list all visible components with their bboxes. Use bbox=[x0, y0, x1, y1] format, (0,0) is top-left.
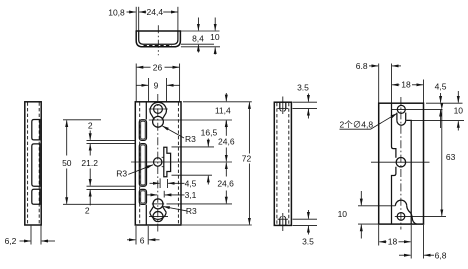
dim 3.5 top extension lines bbox=[293, 101, 318, 103]
extension line slot1 top bbox=[63, 119, 101, 121]
dim 24,6 upper line bbox=[225, 121, 227, 136]
left view hidden lines bbox=[27, 102, 29, 224]
bottom big circle crosshair bbox=[149, 216, 168, 218]
left view slot 3 bbox=[32, 189, 40, 204]
dim 3,1 tick bbox=[163, 191, 165, 198]
svg-text:10: 10 bbox=[210, 32, 220, 42]
label leader bbox=[371, 113, 398, 129]
top slot hole bbox=[397, 105, 405, 113]
svg-text:63: 63 bbox=[446, 152, 456, 162]
right extension line bottom edge bbox=[182, 224, 252, 226]
front slot 3 bbox=[139, 189, 146, 204]
dim 9 extension lines bbox=[148, 78, 150, 102]
top edge right extension line bbox=[426, 102, 463, 104]
svg-text:3.5: 3.5 bbox=[297, 83, 309, 93]
dim 24,6 lower line bbox=[225, 163, 227, 177]
dim 4,5 arrows bbox=[440, 93, 442, 103]
leader R3 middle bbox=[128, 165, 153, 175]
inner-left bend line with middle jog bbox=[392, 103, 396, 224]
top keyhole lower circle R3 bbox=[153, 116, 164, 127]
svg-text:3,1: 3,1 bbox=[185, 190, 197, 200]
svg-text:6: 6 bbox=[140, 235, 145, 245]
svg-text:6,8: 6,8 bbox=[435, 250, 447, 260]
dim 3.5 top arrows bbox=[307, 94, 309, 102]
dim 8,4 arrows bbox=[197, 18, 199, 31]
dim 9 arrows bbox=[137, 84, 149, 86]
dim 6,2 extension lines bbox=[30, 226, 32, 245]
bottom notch sides bbox=[279, 219, 281, 225]
dim 11,4 arrows bbox=[225, 93, 227, 101]
bottom notch crosshair bbox=[278, 218, 289, 220]
svg-text:3.5: 3.5 bbox=[302, 237, 314, 247]
svg-text:21.2: 21.2 bbox=[81, 158, 98, 168]
right extension lines of channel bbox=[181, 30, 220, 32]
channel vertical centerline bbox=[157, 25, 159, 55]
top keyhole hole bbox=[154, 105, 163, 114]
dim 10 bottom-left arrows bbox=[360, 191, 362, 205]
third view hidden lines bbox=[276, 103, 278, 225]
third view outline bbox=[274, 102, 291, 225]
front slot 1 bbox=[139, 120, 146, 141]
dim 6 extension lines bbox=[135, 226, 137, 245]
front view outline bbox=[135, 102, 181, 225]
dim 4,5 arrows bbox=[150, 182, 160, 184]
right extension line tab top bbox=[172, 146, 215, 148]
svg-text:26: 26 bbox=[153, 62, 163, 72]
vertical centerline of front view bbox=[157, 94, 159, 232]
dim 18 bottom extension lines bbox=[378, 225, 380, 246]
top notch hidden arc bbox=[280, 108, 286, 111]
svg-text:24,6: 24,6 bbox=[218, 137, 235, 147]
svg-text:4,5: 4,5 bbox=[435, 82, 447, 92]
dim 6 arrows bbox=[127, 239, 135, 241]
top notch center tick bbox=[282, 97, 284, 115]
extension line slot3 bottom bbox=[63, 203, 135, 205]
right extension line keyhole circle bbox=[149, 119, 232, 121]
svg-text:16,5: 16,5 bbox=[201, 127, 218, 137]
svg-text:10,8: 10,8 bbox=[108, 7, 125, 17]
svg-text:6.8: 6.8 bbox=[356, 61, 368, 71]
svg-text:8,4: 8,4 bbox=[192, 33, 204, 43]
dome extension line (10 dim) bbox=[358, 205, 395, 207]
tab connector lines bbox=[162, 156, 164, 158]
dim 72 line bbox=[248, 102, 250, 153]
bend line left (dashed) bbox=[139, 102, 141, 224]
dim 3,1 arrows bbox=[146, 194, 157, 196]
svg-text:R3: R3 bbox=[116, 169, 127, 179]
middle tab outline bbox=[164, 147, 171, 177]
svg-text:24,6: 24,6 bbox=[217, 179, 234, 189]
channel inner contour bbox=[139, 31, 178, 44]
middle circle bbox=[154, 158, 162, 166]
svg-text:11,4: 11,4 bbox=[215, 106, 231, 116]
dim 10,8 arrow bbox=[127, 11, 136, 13]
dim 10,8 extension lines bbox=[135, 7, 137, 31]
dim 18 top extension line bbox=[423, 80, 425, 103]
svg-text:24,4: 24,4 bbox=[147, 7, 164, 17]
middle circle crosshair line bbox=[371, 161, 430, 163]
left view slot 2 bbox=[32, 144, 40, 186]
top notch sides bbox=[279, 102, 281, 108]
slot bottom extension line bbox=[406, 120, 464, 122]
svg-text:R3: R3 bbox=[185, 134, 196, 144]
right extension line tab bottom bbox=[172, 174, 213, 176]
right plate outline bbox=[379, 103, 424, 224]
channel outer contour bbox=[136, 31, 180, 47]
bottom small circle crosshair bbox=[152, 203, 164, 205]
label underline bbox=[340, 128, 371, 130]
dim 18 top arrows bbox=[392, 84, 399, 86]
dim 26 extension lines bbox=[135, 64, 137, 102]
svg-text:50: 50 bbox=[62, 158, 72, 168]
bottom keyhole big circle bbox=[153, 212, 163, 222]
top hole crosshair bbox=[149, 108, 168, 110]
dim 2 top arrow bbox=[89, 131, 91, 140]
dim 6,8 top arrows bbox=[369, 65, 378, 67]
svg-text:R3: R3 bbox=[186, 206, 197, 216]
extension line pair upper gap bbox=[87, 139, 136, 141]
dim 6,8 bottom extension line bbox=[423, 225, 425, 259]
svg-text:2: 2 bbox=[85, 205, 90, 215]
dim 26 arrows bbox=[137, 66, 151, 68]
svg-text:2: 2 bbox=[88, 121, 93, 131]
dim 10 right arrows bbox=[457, 91, 459, 103]
svg-text:6,2: 6,2 bbox=[5, 236, 17, 246]
bottom dome arc bbox=[395, 200, 406, 206]
right extension line bottom circle bbox=[167, 203, 233, 205]
top notch crosshair bbox=[278, 107, 289, 109]
svg-text:9: 9 bbox=[154, 80, 159, 90]
left view outline bbox=[25, 102, 41, 225]
svg-text:72: 72 bbox=[242, 153, 252, 163]
leader R3 bottom bbox=[163, 207, 187, 211]
bottom corner arc bbox=[407, 206, 417, 224]
middle circle bbox=[396, 158, 405, 167]
top hole crosshair + extension bbox=[392, 108, 443, 110]
bottom keyhole small circle bbox=[153, 199, 163, 209]
dim 10 arrows bbox=[214, 18, 216, 31]
dim 10 bottom-left extension line bbox=[358, 223, 378, 225]
bottom notch center tick bbox=[282, 213, 284, 231]
dim 2 bottom arrow bbox=[89, 190, 91, 206]
top keyhole outer contour bbox=[150, 102, 166, 119]
leader R3 top bbox=[162, 126, 184, 138]
hidden tab line (dashed) at channel bottom bbox=[144, 45, 172, 47]
dim 4,5 ticks bbox=[159, 178, 161, 188]
bend line right (dashed) bbox=[177, 102, 179, 224]
front slot 2 bbox=[139, 144, 146, 187]
channel top edge bbox=[136, 30, 182, 32]
dim 21.2 arrows bbox=[89, 144, 91, 156]
svg-text:2个∅4,8: 2个∅4,8 bbox=[340, 119, 374, 129]
top slot sides bbox=[396, 113, 398, 121]
svg-text:18: 18 bbox=[401, 80, 411, 90]
bottom hole bbox=[397, 213, 405, 221]
bottom keyhole outer contour bbox=[150, 206, 166, 219]
svg-text:18: 18 bbox=[388, 237, 398, 247]
dim 24,4 extension line bbox=[177, 7, 179, 31]
flange edge line bbox=[145, 102, 147, 120]
dim 3.5 bottom extension lines bbox=[293, 218, 318, 220]
svg-text:10: 10 bbox=[338, 209, 348, 219]
inner-right line with bottom fillet bbox=[406, 120, 411, 224]
dim 6,8 top extension lines bbox=[378, 64, 380, 103]
plate vertical centerline bbox=[400, 97, 402, 230]
dim 6,2 arrows bbox=[20, 240, 31, 242]
bottom notch hidden arc bbox=[280, 216, 286, 219]
dim 3.5 bottom arrows bbox=[307, 210, 309, 219]
dim 18 bottom arrows bbox=[379, 241, 386, 243]
dim 6,8 bottom arrows bbox=[399, 254, 411, 256]
extension line pair lower gap bbox=[87, 185, 136, 187]
left view slot 1 bbox=[32, 120, 40, 140]
dim 50 line with arrows bbox=[66, 120, 68, 155]
dim 63 line bbox=[441, 109, 443, 215]
top slot bottom arc bbox=[397, 121, 406, 126]
bottom hole crosshair + extension bbox=[395, 215, 446, 217]
dim 16,5 arrows bbox=[207, 139, 209, 147]
dim 24,4 arrows bbox=[139, 11, 146, 13]
right extension line top edge bbox=[183, 101, 252, 103]
svg-text:4,5: 4,5 bbox=[185, 178, 197, 188]
svg-text:10: 10 bbox=[454, 105, 464, 115]
middle horizontal centerline bbox=[131, 161, 232, 163]
